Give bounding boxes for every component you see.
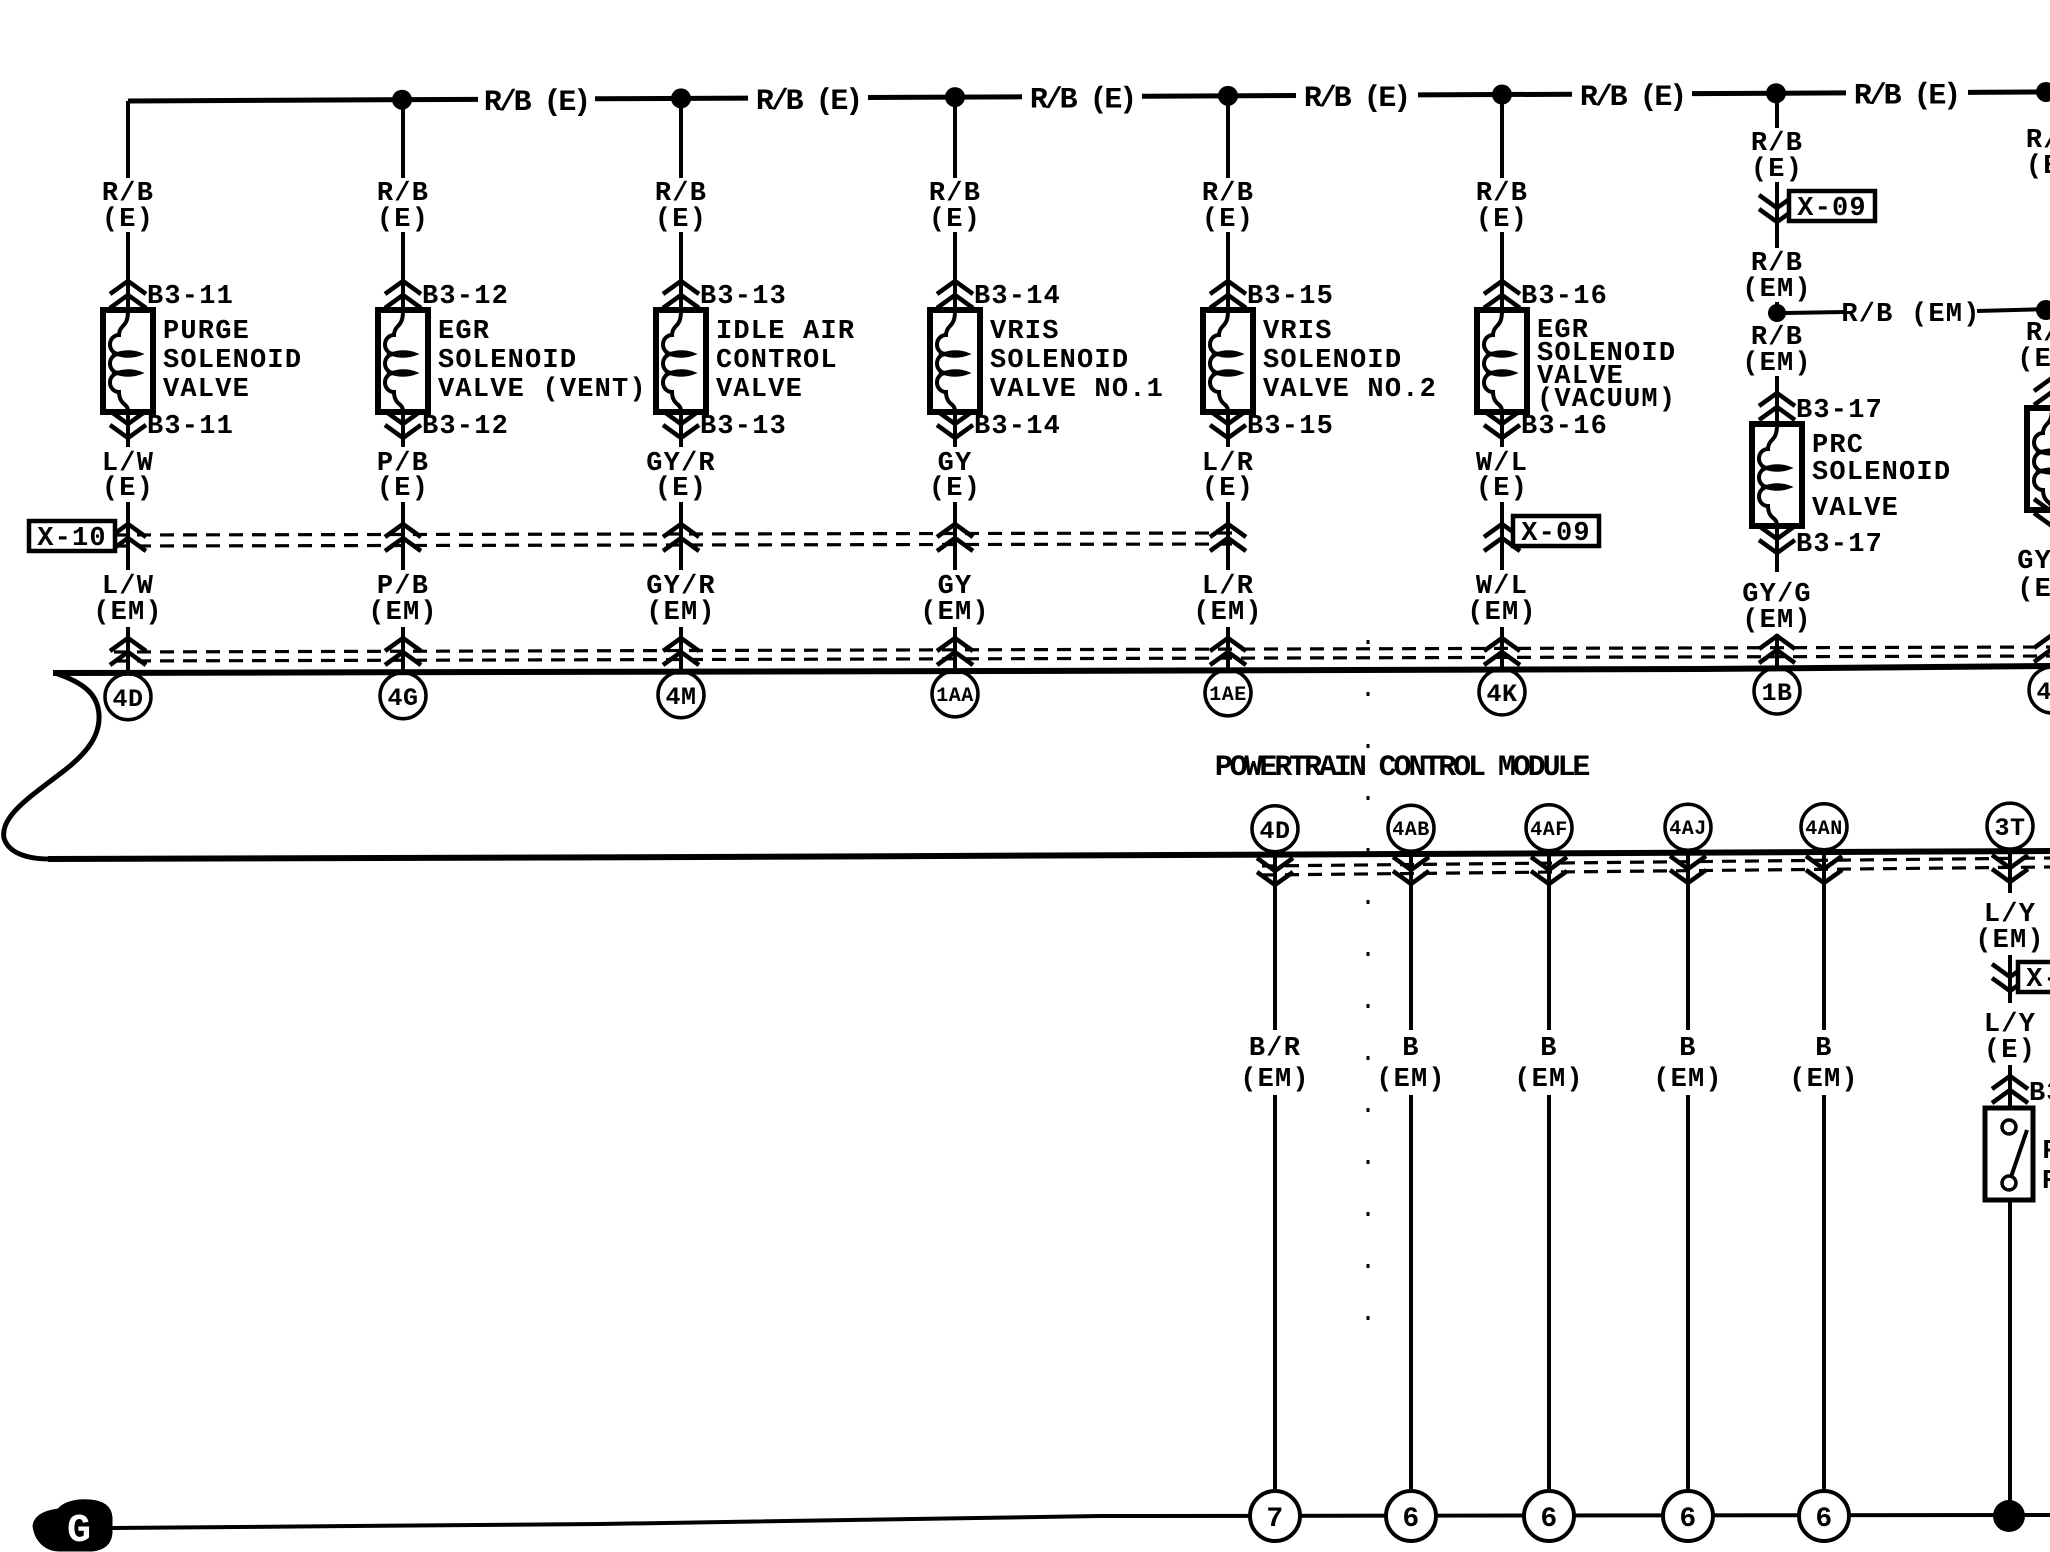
svg-text:SOLENOID: SOLENOID xyxy=(1263,346,1402,376)
svg-text:4AJ: 4AJ xyxy=(1669,818,1707,841)
label wire color B (EM) column 4AJ xyxy=(1653,1034,1723,1095)
svg-text:(E): (E) xyxy=(377,205,429,235)
svg-text:(EM): (EM) xyxy=(93,598,163,628)
label wire color R/B (E) column 4 xyxy=(929,179,981,235)
terminal circle 4M on PCM top edge xyxy=(658,672,704,718)
label wire color B (EM) column 4AB xyxy=(1376,1034,1446,1095)
terminal circle 6 on ground bus xyxy=(1386,1491,1436,1541)
connector chevron at PCM dashed line column 4 xyxy=(937,638,973,665)
svg-text:(E): (E) xyxy=(1476,205,1528,235)
connector chevron X column 3T xyxy=(1992,964,2028,991)
label wire color GY/G (EM) column 7 xyxy=(1742,580,1812,636)
svg-text:B3-14: B3-14 xyxy=(974,412,1061,442)
label wire color R/B (EM) column 7 upper xyxy=(1742,249,1812,305)
svg-text:X-08: X-08 xyxy=(2026,965,2050,995)
solenoid valve coil B3-11 column 1 xyxy=(103,310,153,412)
svg-text:1AE: 1AE xyxy=(1209,684,1247,707)
wire column 7 from top bus R/B xyxy=(1775,93,1779,320)
svg-text:FU: FU xyxy=(2042,1137,2050,1167)
PCM top edge bus line xyxy=(53,666,2050,673)
svg-text:B3-16: B3-16 xyxy=(1521,282,1608,312)
svg-text:POWERTRAIN CONTROL MODULE: POWERTRAIN CONTROL MODULE xyxy=(1215,751,1590,785)
connector chevron at PCM dashed line column 3 xyxy=(663,638,699,665)
terminal circle 7 on ground bus xyxy=(1250,1491,1300,1541)
svg-text:B3-14: B3-14 xyxy=(974,282,1061,312)
svg-text:(EM): (EM) xyxy=(1376,1065,1446,1095)
connector pin chevron B3 column 3T xyxy=(1992,1076,2050,1109)
svg-text:R/B (E): R/B (E) xyxy=(1580,81,1684,115)
solenoid valve coil B3-13 column 3 xyxy=(656,310,706,412)
svg-text:(EM): (EM) xyxy=(920,598,990,628)
svg-text:(E): (E) xyxy=(929,205,981,235)
junction node ground bus right xyxy=(1993,1500,2025,1532)
svg-text:B: B xyxy=(1679,1034,1696,1064)
svg-text:PRC: PRC xyxy=(1812,431,1864,461)
svg-text:(EM): (EM) xyxy=(2017,345,2050,375)
svg-text:4D: 4D xyxy=(1259,817,1290,846)
svg-text:(E): (E) xyxy=(655,205,707,235)
svg-text:(E): (E) xyxy=(1751,155,1803,185)
label wire color R/B (E) column 1 xyxy=(102,179,154,235)
svg-text:EGR: EGR xyxy=(438,317,490,347)
label wire color B/R (EM) column 4D xyxy=(1240,1034,1310,1095)
label wire color B (EM) column 4AN xyxy=(1789,1034,1859,1095)
svg-text:4K: 4K xyxy=(1486,680,1517,709)
wire B (EM) column 4AF down to ground bus xyxy=(1547,854,1551,1516)
label wire color R/B (E) column 2 xyxy=(377,179,429,235)
wire B (EM) column 4AN down to ground bus xyxy=(1822,853,1826,1516)
svg-text:(EM): (EM) xyxy=(1742,349,1812,379)
solenoid valve coil B3-17 PRC xyxy=(1752,424,1802,526)
label wire color L/R (EM) column 5 xyxy=(1193,572,1263,628)
svg-text:B3-13: B3-13 xyxy=(700,412,787,442)
wire column 6 from top bus, R/B (E) xyxy=(1500,95,1504,668)
label wire color R/B (E) column 6 xyxy=(1476,179,1528,235)
svg-text:(EM): (EM) xyxy=(1240,1065,1310,1095)
svg-text:(EM): (EM) xyxy=(1467,598,1537,628)
svg-text:SOLENOID: SOLENOID xyxy=(990,346,1129,376)
svg-text:GY/G: GY/G xyxy=(2017,547,2050,577)
label wire color L/R (E) column 5 xyxy=(1202,449,1254,504)
wire column 7 to PRC solenoid xyxy=(1775,376,1779,667)
solenoid valve coil column 8 partial xyxy=(2027,408,2050,510)
svg-text:B3-16: B3-16 xyxy=(1521,412,1608,442)
connector pin B3-15 upper chevron column 5 xyxy=(1210,281,1334,312)
svg-text:X-09: X-09 xyxy=(1521,519,1591,549)
connector pin B3-17 lower chevron column 7 xyxy=(1759,526,1883,560)
label wire color GY column 8 xyxy=(2017,547,2050,605)
svg-text:X-10: X-10 xyxy=(37,524,107,554)
svg-text:B3-11: B3-11 xyxy=(147,412,234,442)
svg-text:B3-12: B3-12 xyxy=(422,412,509,442)
connector box X-09 column 6 xyxy=(1513,516,1599,549)
PCM left S-curve xyxy=(4,673,99,859)
svg-text:B: B xyxy=(1815,1034,1832,1064)
svg-text:4AN: 4AN xyxy=(1805,818,1843,841)
dashed connector line above PCM lower xyxy=(114,656,2050,661)
svg-text:SOLENOID: SOLENOID xyxy=(163,346,302,376)
svg-text:VRIS: VRIS xyxy=(1263,317,1333,347)
wire L/Y column 3T xyxy=(2008,852,2012,1516)
dashed connector line X-10 upper xyxy=(114,533,1235,535)
connector X-09 chevron column 7 xyxy=(1759,195,1795,222)
svg-text:(E): (E) xyxy=(655,474,707,504)
svg-text:R/B (E): R/B (E) xyxy=(1854,80,1958,114)
ground symbol G (car body) xyxy=(33,1500,112,1552)
label wire color R/B (E) column 3 xyxy=(655,179,707,235)
connector pin B3-12 lower chevron column 2 xyxy=(385,411,509,442)
svg-text:VALVE: VALVE xyxy=(716,375,803,405)
wire B/R (EM) column 4D down to ground bus xyxy=(1273,855,1277,1516)
terminal circle 4AF on PCM bottom edge xyxy=(1526,805,1572,851)
label wire color W/L (EM) column 6 xyxy=(1467,572,1537,628)
wire B (EM) column 4AJ down to ground bus xyxy=(1686,853,1690,1516)
svg-text:(EM): (EM) xyxy=(1789,1065,1859,1095)
svg-text:4AF: 4AF xyxy=(1530,819,1568,842)
label wire color GY/R (EM) column 3 xyxy=(646,572,716,628)
svg-text:B/R: B/R xyxy=(1249,1034,1301,1064)
PCM fold dotted line xyxy=(1367,640,1370,1345)
terminal circle 4D on PCM bottom edge xyxy=(1252,806,1298,852)
svg-text:(E): (E) xyxy=(102,205,154,235)
svg-text:B: B xyxy=(1540,1034,1557,1064)
terminal circle 4AJ on PCM bottom edge xyxy=(1665,804,1711,850)
label wire color L/Y (E) column 3T xyxy=(1984,1010,2036,1066)
label wire color B (EM) column 4AF xyxy=(1514,1034,1584,1095)
svg-text:(E): (E) xyxy=(102,474,154,504)
connector X-10 chevron column 2 xyxy=(385,524,421,551)
svg-text:SOLENOID: SOLENOID xyxy=(438,346,577,376)
connector box X column 3T partial xyxy=(2018,962,2050,995)
label wire color R/B (E) column 5 xyxy=(1202,179,1254,235)
wire column 5 from top bus, R/B (E) xyxy=(1226,96,1230,669)
svg-text:(VACUUM): (VACUUM) xyxy=(1537,385,1676,415)
terminal circle 4AB on PCM bottom edge xyxy=(1388,805,1434,851)
svg-text:4G: 4G xyxy=(387,684,418,713)
junction top bus node 1 xyxy=(392,90,412,110)
label wire color GY (EM) column 4 xyxy=(920,572,990,628)
svg-text:B: B xyxy=(1402,1034,1419,1064)
junction top bus node 3 xyxy=(945,87,965,107)
svg-text:(EM): (EM) xyxy=(1653,1065,1723,1095)
svg-text:1B: 1B xyxy=(1761,679,1792,708)
svg-text:4A: 4A xyxy=(2036,678,2050,707)
svg-text:B3-13: B3-13 xyxy=(700,282,787,312)
svg-text:7: 7 xyxy=(1266,1504,1283,1535)
label device name column 2 xyxy=(438,317,647,405)
terminal circle 4D on PCM top edge xyxy=(105,674,151,720)
svg-text:(E): (E) xyxy=(929,474,981,504)
terminal circle 3T on PCM bottom edge xyxy=(1987,803,2033,849)
connector chevron below PCM column 3T xyxy=(1992,855,2028,882)
svg-text:VRIS: VRIS xyxy=(990,317,1060,347)
svg-text:(EM): (EM) xyxy=(1193,598,1263,628)
terminal circle 6 on ground bus xyxy=(1799,1491,1849,1541)
connector box X-09 column 7 xyxy=(1789,191,1875,224)
ground bus wire xyxy=(112,1515,2050,1528)
label wire color GY (E) column 4 xyxy=(929,449,981,504)
dashed connector line X-10 lower xyxy=(114,544,1235,546)
label device name column 1 xyxy=(163,317,302,405)
svg-text:(EM): (EM) xyxy=(1742,275,1812,305)
connector chevron lower column 8 xyxy=(2034,499,2050,526)
svg-text:SOLENOID: SOLENOID xyxy=(1812,458,1951,488)
connector chevron at PCM dashed line column 2 xyxy=(385,638,421,665)
svg-text:3T: 3T xyxy=(1994,814,2025,843)
label wire color R/B (E) column 7 xyxy=(1751,129,1803,185)
connector X-10 chevron column 3 xyxy=(663,524,699,551)
svg-text:B3-17: B3-17 xyxy=(1796,530,1883,560)
connector chevron below PCM column 4AN xyxy=(1806,856,1842,883)
svg-text:6: 6 xyxy=(1540,1504,1557,1535)
svg-text:(E): (E) xyxy=(1202,205,1254,235)
svg-text:(E): (E) xyxy=(1984,1036,2036,1066)
svg-text:6: 6 xyxy=(1402,1504,1419,1535)
svg-text:VALVE: VALVE xyxy=(1812,494,1899,524)
junction node branch right edge xyxy=(2036,300,2050,320)
svg-text:B3-12: B3-12 xyxy=(422,282,509,312)
label device name column 4 xyxy=(990,317,1164,405)
svg-text:R/B (E): R/B (E) xyxy=(1304,82,1408,116)
svg-text:6: 6 xyxy=(1815,1504,1832,1535)
svg-text:VALVE: VALVE xyxy=(163,375,250,405)
svg-text:(EM): (EM) xyxy=(368,598,438,628)
svg-text:4D: 4D xyxy=(112,685,143,714)
terminal circle 1AA on PCM top edge xyxy=(932,671,978,717)
connector pin B3-13 upper chevron column 3 xyxy=(663,281,787,312)
terminal circle 1B on PCM top edge xyxy=(1754,668,1800,714)
svg-text:4AB: 4AB xyxy=(1392,819,1430,842)
svg-text:R/B (E): R/B (E) xyxy=(484,86,588,120)
connector chevron upper column 8 xyxy=(2034,378,2050,405)
svg-text:(E): (E) xyxy=(1476,474,1528,504)
terminal circle 4 right edge partial xyxy=(2029,667,2050,713)
svg-text:G: G xyxy=(67,1509,91,1552)
label wire color R/B (E) column 8 xyxy=(2026,126,2050,182)
PCM bottom edge bus line xyxy=(48,851,2050,859)
svg-text:(EM): (EM) xyxy=(1975,926,2045,956)
svg-text:X-09: X-09 xyxy=(1797,194,1867,224)
terminal circle 4AN on PCM bottom edge xyxy=(1801,804,1847,850)
svg-text:B3-15: B3-15 xyxy=(1247,412,1334,442)
label device name column 5 xyxy=(1263,317,1437,405)
svg-text:R/B (E): R/B (E) xyxy=(756,85,860,119)
wire column 4 from top bus, R/B (E) xyxy=(953,97,957,670)
relay switch box column 3T xyxy=(1985,1108,2033,1200)
junction node column 7 R/B (EM) branch xyxy=(1768,304,1786,322)
connector X-10 chevron column 4 xyxy=(937,524,973,551)
label wire color W/L (E) column 6 xyxy=(1476,449,1528,504)
svg-text:(EM): (EM) xyxy=(2017,575,2050,605)
dashed connector line below PCM upper xyxy=(1262,858,2050,866)
wire column 1 from top bus, R/B (E) xyxy=(126,101,130,673)
terminal circle 6 on ground bus xyxy=(1663,1491,1713,1541)
svg-text:(EM): (EM) xyxy=(1514,1065,1584,1095)
terminal circle 4K on PCM top edge xyxy=(1479,669,1525,715)
svg-text:(E): (E) xyxy=(377,474,429,504)
connector pin B3-11 lower chevron column 1 xyxy=(110,411,234,442)
dashed connector line above PCM upper xyxy=(114,647,2050,652)
connector chevron at PCM dashed line column 5 xyxy=(1210,638,1246,665)
terminal circle 6 on ground bus xyxy=(1524,1491,1574,1541)
connector pin B3-12 upper chevron column 2 xyxy=(385,281,509,312)
junction top bus node 5 xyxy=(1492,85,1512,105)
wire B (EM) column 4AB down to ground bus xyxy=(1409,854,1413,1516)
connector chevron below PCM column 4AF xyxy=(1531,857,1567,884)
svg-text:(E): (E) xyxy=(1202,474,1254,504)
solenoid valve coil B3-14 column 4 xyxy=(930,310,980,412)
solenoid valve coil B3-16 column 6 xyxy=(1477,310,1527,412)
wire branch R/B (EM) to right edge xyxy=(1785,309,2050,313)
svg-text:PURGE: PURGE xyxy=(163,317,250,347)
connector pin B3-13 lower chevron column 3 xyxy=(663,411,787,442)
connector pin B3-16 upper chevron column 6 xyxy=(1484,281,1608,312)
label wire color R/B (EM) column 7 lower xyxy=(1742,323,1812,379)
terminal circle 1AE on PCM top edge xyxy=(1205,670,1251,716)
svg-text:VALVE NO.1: VALVE NO.1 xyxy=(990,375,1164,405)
solenoid valve coil B3-15 column 5 xyxy=(1203,310,1253,412)
connector chevron below PCM column 4AJ xyxy=(1670,856,1706,883)
label wire color P/B (EM) column 2 xyxy=(368,572,438,628)
label device name column 3 xyxy=(716,317,855,405)
dashed connector line below PCM lower xyxy=(1262,867,2050,875)
connector X-09 chevron and box column 6 xyxy=(1484,524,1520,551)
wire column 3 from top bus, R/B (E) xyxy=(679,98,683,670)
svg-text:IDLE AIR: IDLE AIR xyxy=(716,317,855,347)
svg-text:(EM): (EM) xyxy=(1742,606,1812,636)
svg-text:4M: 4M xyxy=(665,683,696,712)
label device name column 6 xyxy=(1537,316,1676,415)
connector chevron at PCM dashed line column 1 xyxy=(110,638,146,665)
svg-text:6: 6 xyxy=(1679,1504,1696,1535)
svg-text:R/B (E): R/B (E) xyxy=(1030,84,1134,118)
label relay name partial xyxy=(2042,1137,2050,1197)
svg-text:B3-18: B3-18 xyxy=(2029,1079,2050,1109)
label wire color L/W (E) column 1 xyxy=(102,449,154,504)
svg-text:(E): (E) xyxy=(2026,152,2050,182)
svg-text:1AA: 1AA xyxy=(936,685,974,708)
connector pin B3-11 upper chevron column 1 xyxy=(110,281,234,312)
wire column 2 from top bus, R/B (E) xyxy=(401,100,405,672)
connector pin B3-14 lower chevron column 4 xyxy=(937,411,1061,442)
connector pin B3-15 lower chevron column 5 xyxy=(1210,411,1334,442)
svg-text:RE: RE xyxy=(2042,1167,2050,1197)
connector pin B3-16 lower chevron column 6 xyxy=(1484,411,1608,442)
svg-text:B3-17: B3-17 xyxy=(1796,396,1883,426)
svg-text:B3-15: B3-15 xyxy=(1247,282,1334,312)
connector chevron at PCM dashed line column 7 xyxy=(1759,636,1795,663)
connector X-10 chevron column 5 xyxy=(1210,524,1246,551)
connector chevron at PCM dashed line column 6 xyxy=(1484,638,1520,665)
connector pin B3-14 upper chevron column 4 xyxy=(937,281,1061,312)
connector chevron below PCM column 4AB xyxy=(1393,857,1429,884)
solenoid valve coil B3-12 column 2 xyxy=(378,310,428,412)
svg-text:B3-11: B3-11 xyxy=(147,282,234,312)
svg-text:VALVE NO.2: VALVE NO.2 xyxy=(1263,375,1437,405)
connector X-10 chevron column 1 xyxy=(110,524,146,551)
svg-text:CONTROL: CONTROL xyxy=(716,346,838,376)
label wire color GY/R (E) column 3 xyxy=(646,449,716,504)
label wire color P/B (E) column 2 xyxy=(377,449,429,504)
label wire color L/W (EM) column 1 xyxy=(93,572,163,628)
wire top R/B (E) power bus xyxy=(128,92,2050,101)
svg-text:VALVE (VENT): VALVE (VENT) xyxy=(438,375,647,405)
label wire color L/Y (EM) column 3T xyxy=(1975,900,2045,956)
connector pin B3-17 upper chevron column 7 xyxy=(1759,393,1883,426)
terminal circle 4G on PCM top edge xyxy=(380,673,426,719)
junction top bus right edge node xyxy=(2036,82,2050,102)
connector chevron at PCM dashed line column 8 xyxy=(2034,635,2050,662)
connector box X-10 xyxy=(29,521,115,554)
label wire color R/B (EM) column 8 xyxy=(2017,319,2050,375)
svg-text:R/B (EM): R/B (EM) xyxy=(1841,300,1980,330)
label PRC SOLENOID VALVE xyxy=(1812,431,1951,524)
svg-text:(EM): (EM) xyxy=(646,598,716,628)
junction top bus node 4 xyxy=(1218,86,1238,106)
connector chevron below PCM column 4D xyxy=(1257,858,1293,885)
junction top bus node 2 xyxy=(671,88,691,108)
junction top bus node 6 xyxy=(1766,83,1786,103)
